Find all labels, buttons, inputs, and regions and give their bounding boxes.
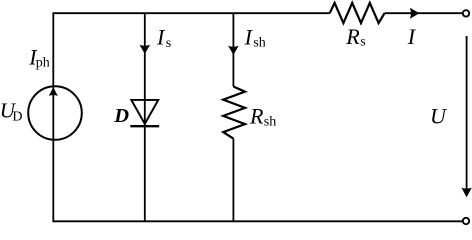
wire: bottom bus bbox=[53, 220, 465, 222]
resistor R_s (zigzag) bbox=[330, 3, 385, 23]
terminal: negative output node bbox=[463, 218, 469, 224]
label D bbox=[113, 105, 129, 127]
voltage arrow U bbox=[461, 36, 471, 197]
svg-text:D: D bbox=[113, 105, 129, 127]
label I_s bbox=[156, 24, 171, 51]
svg-text:s: s bbox=[166, 36, 171, 51]
svg-text:sh: sh bbox=[253, 35, 265, 50]
current source U1 (photocurrent I_ph) bbox=[28, 86, 82, 140]
svg-text:I: I bbox=[156, 24, 166, 49]
resistor R_sh (zigzag) bbox=[223, 87, 245, 139]
svg-text:ph: ph bbox=[36, 56, 50, 71]
label I_sh bbox=[244, 24, 266, 50]
svg-text:sh: sh bbox=[264, 115, 276, 130]
label U bbox=[430, 103, 448, 128]
wire: top bus right segment (R_s to terminal) bbox=[385, 12, 465, 14]
svg-text:D: D bbox=[12, 109, 22, 124]
label R_sh bbox=[249, 103, 276, 129]
svg-text:U: U bbox=[430, 103, 448, 128]
label I bbox=[407, 24, 417, 49]
arrow I (output current) bbox=[410, 8, 420, 19]
arrow I_sh (shunt branch current) bbox=[228, 46, 239, 55]
svg-text:R: R bbox=[345, 24, 360, 49]
diode D bbox=[130, 100, 159, 126]
terminal: positive output node bbox=[463, 10, 469, 16]
label R_s bbox=[345, 24, 365, 49]
wire: diode branch vertical bbox=[144, 13, 146, 221]
svg-text:R: R bbox=[249, 103, 264, 128]
svg-text:I: I bbox=[244, 24, 254, 49]
label U_D bbox=[0, 98, 23, 124]
wire: top bus left segment bbox=[53, 12, 329, 14]
wire: left vertical branch bbox=[52, 12, 54, 222]
svg-text:s: s bbox=[360, 34, 365, 49]
wire: shunt branch vertical (bottom of R_sh) bbox=[232, 139, 234, 222]
svg-text:I: I bbox=[407, 24, 417, 49]
wire: shunt branch vertical (top of R_sh) bbox=[232, 13, 234, 86]
label I_ph bbox=[28, 44, 50, 70]
arrow I_s (branch current) bbox=[140, 45, 151, 54]
